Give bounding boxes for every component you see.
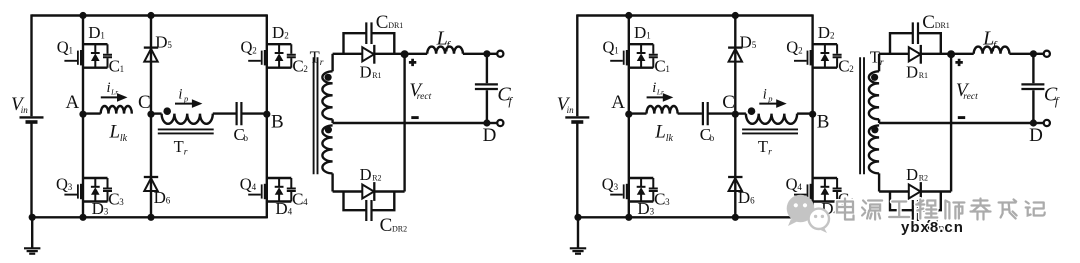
svg-text:D: D: [738, 188, 750, 207]
current arrow ip (right): [759, 99, 786, 108]
transformer core secondary side (right): [860, 57, 864, 174]
wire snubber-box bottom of Q1: [629, 66, 654, 68]
wire winding1 to DR1 (left): [333, 53, 363, 55]
wire snubber-box top of Q1: [629, 43, 654, 45]
svg-text:D: D: [155, 32, 167, 51]
svg-text:p: p: [767, 93, 772, 103]
junction Lf / Cf (left): [483, 50, 490, 57]
secondary winding2 polarity dot (left): [325, 126, 332, 133]
svg-text:2: 2: [830, 31, 835, 41]
diode D4 (body diode of Q4): [275, 178, 284, 202]
diode D2 (body diode of Q2): [821, 44, 830, 67]
svg-text:C: C: [654, 189, 665, 208]
capacitor C1 (snubber of Q1): [103, 44, 112, 67]
label CDR2 (left): [380, 215, 408, 236]
wire top rail (left): [32, 14, 267, 16]
label iLr (left): [107, 80, 119, 97]
svg-text:Q: Q: [786, 175, 798, 194]
wire leg Q2/Q4 (right): [811, 14, 813, 218]
label D1: [88, 23, 105, 42]
label Q3: [56, 175, 73, 194]
watermark character 师: [945, 201, 964, 219]
wire snubber-box bottom of Q4: [813, 200, 838, 202]
output - terminal node D (right): [1044, 120, 1050, 126]
label D1: [634, 23, 651, 42]
svg-text:C: C: [138, 92, 151, 113]
current arrow iLr (left): [101, 93, 128, 102]
svg-text:i: i: [652, 80, 656, 96]
wire + node vertical (left): [403, 54, 405, 192]
wire secondary winding1 top lead (right): [878, 54, 880, 72]
secondary winding 1 (left): [322, 71, 332, 119]
wire left rail upper (left): [30, 14, 32, 116]
secondary winding 2 (right): [869, 125, 879, 173]
transformer primary winding (right): [746, 114, 797, 124]
svg-text:R2: R2: [372, 173, 381, 182]
wire CDR1 branch left (left): [344, 33, 366, 54]
transistor Q1 (left): [64, 50, 83, 65]
label Tr primary (right): [758, 137, 772, 158]
transistor Q4 (right): [794, 184, 813, 199]
current arrow ip (left): [175, 99, 202, 108]
wire to + terminal (left): [487, 53, 497, 55]
wire winding2 to DR2 (left): [333, 190, 363, 192]
label C3: [654, 189, 670, 208]
label Vrect (right): [956, 80, 978, 102]
node B (left): [263, 111, 270, 118]
watermark character 工: [889, 202, 909, 218]
label Q4: [786, 175, 803, 194]
svg-text:R1: R1: [372, 71, 381, 80]
node B (right): [809, 111, 816, 118]
secondary winding 2 (left): [322, 125, 332, 173]
label Tr secondary (right): [870, 47, 884, 68]
svg-text:D: D: [483, 125, 497, 146]
node A (right): [625, 111, 632, 118]
svg-text:1: 1: [614, 45, 619, 55]
transistor Q4 (left): [248, 184, 267, 199]
svg-text:B: B: [271, 111, 284, 132]
watermark character 电: [837, 199, 854, 220]
inductor Lf (right): [974, 47, 1010, 54]
label iLr (right): [652, 80, 664, 97]
junction bottom rail / ground (left): [29, 214, 36, 221]
transistor Q3 (right): [610, 184, 629, 199]
wire snubber-box bottom of Q3: [629, 200, 654, 202]
current arrow iLr (right): [647, 93, 674, 102]
watermark character 程: [916, 200, 937, 219]
wire Cf top lead (left): [486, 54, 488, 83]
svg-text:R2: R2: [919, 173, 928, 182]
capacitor Cf (left): [475, 84, 498, 89]
diode D2 (body diode of Q2): [275, 44, 284, 67]
junction bottom rail / Q3 leg (right): [625, 214, 632, 221]
label D4: [821, 199, 838, 218]
wire node C to primary (right): [735, 112, 746, 114]
label C1: [109, 56, 125, 75]
svg-text:DR1: DR1: [935, 21, 950, 30]
svg-text:C: C: [922, 12, 935, 33]
label C3: [108, 189, 124, 208]
watermark character 成: [999, 200, 1017, 219]
svg-text:C: C: [654, 56, 665, 75]
output + terminal (left): [497, 51, 503, 57]
label C4: [292, 189, 308, 208]
plus sign (left): [409, 59, 416, 66]
svg-text:D: D: [275, 199, 287, 218]
svg-text:Q: Q: [240, 175, 252, 194]
inductor Lf (left): [427, 47, 463, 54]
wire + node to Lf (right): [951, 53, 974, 55]
label Lf (left): [436, 28, 452, 52]
wire bottom rail (left): [32, 216, 267, 218]
label Q2: [786, 38, 802, 57]
node C (right): [732, 111, 739, 118]
svg-text:D: D: [360, 63, 372, 82]
svg-text:D: D: [637, 199, 649, 218]
secondary winding2 polarity dot (right): [871, 126, 878, 133]
wire CDR1 branch right (right): [919, 33, 941, 54]
svg-text:Lr: Lr: [656, 88, 664, 97]
right converter circuit: [557, 12, 1060, 254]
wire secondary winding2 bottom lead (right): [878, 173, 880, 191]
capacitor C2 (snubber of Q2): [833, 44, 842, 67]
svg-text:Q: Q: [603, 38, 615, 57]
watermark logo chat bubbles: [787, 195, 829, 233]
diode DR1 (left): [362, 45, 374, 64]
diode D1 (body diode of Q1): [91, 44, 100, 67]
svg-text:D: D: [360, 165, 372, 184]
wire Cb to node C (right): [708, 112, 735, 114]
wire CDR2 branch right (right): [919, 192, 941, 211]
junction + node (left): [401, 50, 409, 58]
capacitor C4 (snubber of Q4): [833, 178, 842, 202]
svg-text:C: C: [108, 189, 119, 208]
label C1: [654, 56, 670, 75]
minus sign (right): [958, 116, 965, 119]
wire leg Q1/Q3 (left): [82, 16, 84, 218]
wire snubber-box bottom of Q2: [813, 66, 838, 68]
svg-text:2: 2: [303, 64, 308, 74]
label Vin (left): [11, 94, 28, 115]
transformer core secondary side (left): [314, 57, 318, 174]
wire snubber-box bottom of Q1: [83, 66, 108, 68]
wire leg D5/D6 (right): [734, 16, 736, 218]
diode D1 (body diode of Q1): [637, 44, 646, 67]
wire bottom rail (right): [577, 216, 812, 218]
label Llk (right): [654, 122, 673, 144]
ground (left): [24, 248, 40, 253]
label Vrect (left): [409, 80, 431, 102]
svg-text:D: D: [88, 23, 100, 42]
svg-text:4: 4: [252, 182, 257, 192]
svg-text:1: 1: [69, 45, 74, 55]
diode D3 (body diode of Q3): [637, 178, 646, 202]
svg-text:r: r: [320, 58, 324, 68]
svg-text:1: 1: [646, 31, 651, 41]
svg-text:5: 5: [752, 40, 757, 50]
svg-text:rect: rect: [963, 92, 978, 102]
wire leg Q2/Q4 (left): [266, 14, 268, 218]
svg-text:A: A: [66, 92, 80, 113]
wire left rail lower (right): [576, 123, 578, 218]
node C (left): [147, 111, 154, 118]
label D2: [272, 23, 289, 42]
wire to - terminal (left): [487, 122, 497, 124]
diode D5 (right): [728, 48, 742, 62]
wire ground stem (left): [31, 217, 33, 248]
svg-text:2: 2: [849, 64, 854, 74]
capacitor Cb (right): [703, 102, 708, 125]
junction top rail / Q1 leg (right): [625, 12, 632, 19]
wire center tap / minus rail (left): [333, 122, 487, 124]
wire CDR2 branch right (left): [372, 192, 394, 211]
label Cf (left): [497, 84, 513, 109]
wire Cf bottom lead (left): [486, 90, 488, 123]
svg-text:C: C: [292, 189, 303, 208]
svg-text:DR1: DR1: [388, 21, 403, 30]
svg-text:p: p: [183, 93, 188, 103]
capacitor CDR1 (right): [913, 22, 918, 44]
left converter circuit: [11, 12, 513, 254]
label C4: [838, 189, 854, 208]
label D3: [637, 199, 654, 218]
svg-text:2: 2: [798, 45, 803, 55]
label Q1: [57, 38, 73, 57]
label Cf (right): [1044, 84, 1060, 109]
wire snubber-box top of Q4: [267, 177, 292, 179]
minus sign (left): [411, 116, 418, 119]
capacitor CDR1 (left): [366, 22, 371, 44]
wire snubber-box top of Q2: [267, 43, 292, 45]
svg-text:DR2: DR2: [392, 224, 407, 233]
svg-text:L: L: [654, 122, 666, 143]
label Tr secondary (left): [310, 47, 324, 68]
svg-text:3: 3: [68, 182, 73, 192]
svg-text:ybx8.cn: ybx8.cn: [901, 219, 964, 236]
label DR2 (left): [360, 165, 382, 184]
label DR1 (left): [360, 63, 382, 82]
transistor Q2 (right): [794, 50, 813, 65]
svg-text:lk: lk: [120, 133, 128, 144]
svg-text:r: r: [880, 58, 884, 68]
svg-text:2: 2: [252, 45, 256, 55]
label Q2: [241, 38, 257, 57]
wire DR1 to + node (right): [921, 53, 951, 55]
label D5: [155, 32, 172, 51]
svg-text:5: 5: [167, 40, 172, 50]
wire DR1 to + node (left): [374, 53, 404, 55]
battery Vin source (left): [20, 117, 44, 122]
diode D4 (body diode of Q4): [821, 178, 830, 202]
wire CDR1 branch left (right): [890, 33, 912, 54]
svg-text:C: C: [380, 215, 393, 236]
label CDR2 (right): [926, 215, 954, 236]
label Llk (left): [109, 122, 128, 144]
junction top rail / Q1 leg (left): [79, 12, 86, 19]
svg-text:1: 1: [120, 64, 125, 74]
label Cb (left): [234, 125, 249, 144]
wire DR2 to + line (left): [374, 190, 404, 192]
label D4: [275, 199, 292, 218]
capacitor Cf (right): [1021, 84, 1044, 89]
label Q1: [603, 38, 619, 57]
svg-text:D: D: [740, 32, 752, 51]
transistor Q1 (right): [610, 50, 629, 65]
junction minus rail / Cf (left): [483, 119, 490, 126]
junction top rail / D5 leg (right): [732, 12, 739, 19]
junction minus rail / Cf (right): [1030, 119, 1037, 126]
svg-text:C: C: [722, 92, 735, 113]
wire winding1 to DR1 (right): [879, 53, 909, 55]
wire node A to Llk (right): [629, 112, 647, 114]
svg-text:in: in: [21, 105, 29, 115]
svg-text:Lr: Lr: [110, 88, 118, 97]
label DR1 (right): [906, 63, 928, 82]
svg-text:6: 6: [166, 195, 171, 205]
wire secondary winding1 top lead (left): [331, 54, 333, 72]
svg-text:D: D: [92, 199, 104, 218]
svg-text:Q: Q: [602, 175, 614, 194]
junction Lf / Cf (right): [1030, 50, 1037, 57]
wire primary to node B (right): [797, 112, 813, 114]
transformer primary winding (left): [162, 114, 213, 124]
wire Cb to node B (left): [242, 112, 267, 114]
svg-text:D: D: [906, 63, 918, 82]
wire winding1 to center tap (right): [878, 119, 880, 123]
wire CDR2 branch left (right): [890, 192, 912, 211]
capacitor C4 (snubber of Q4): [287, 178, 296, 202]
wire snubber-box top of Q1: [83, 43, 108, 45]
wire node A to Llk (left): [83, 112, 101, 114]
label D3: [92, 199, 109, 218]
svg-text:L: L: [109, 122, 121, 143]
wire to + terminal (right): [1033, 53, 1043, 55]
wire snubber-box bottom of Q4: [267, 200, 292, 202]
transformer core primary side (right): [742, 129, 798, 133]
capacitor C3 (snubber of Q3): [649, 178, 658, 202]
svg-text:r: r: [768, 148, 772, 158]
svg-text:C: C: [376, 12, 389, 33]
wire snubber-box bottom of Q2: [267, 66, 292, 68]
label C2: [838, 56, 854, 75]
watermark character 记: [1026, 202, 1045, 216]
wire Llk to Cb (right): [678, 112, 702, 114]
label CDR1 (left): [376, 12, 404, 33]
label ip (left): [178, 86, 188, 103]
junction bottom rail / D6 leg (right): [732, 214, 739, 221]
svg-text:C: C: [838, 56, 849, 75]
wire secondary winding2 bottom lead (left): [331, 173, 333, 191]
node A (left): [79, 111, 86, 118]
svg-text:T: T: [758, 137, 768, 156]
watermark character 养: [971, 199, 991, 220]
label Q4: [240, 175, 257, 194]
diode D5 (left): [144, 48, 158, 62]
plus sign (right): [955, 59, 962, 66]
svg-text:3: 3: [614, 182, 619, 192]
secondary winding 1 (right): [869, 71, 879, 119]
wire winding1 to center tap (left): [331, 119, 333, 123]
svg-text:6: 6: [750, 195, 755, 205]
wire CDR1 branch right (left): [372, 33, 394, 54]
wire Lf to output + (left): [463, 53, 487, 55]
capacitor C2 (snubber of Q2): [287, 44, 296, 67]
wire CDR2 branch left (left): [344, 192, 366, 211]
svg-text:D: D: [154, 188, 166, 207]
diode D6 (left): [144, 177, 158, 191]
wire ground stem (right): [577, 217, 579, 248]
capacitor C3 (snubber of Q3): [103, 178, 112, 202]
wire DR2 to + line (right): [921, 190, 951, 192]
diode D6 (right): [728, 177, 742, 191]
wire Cf top lead (right): [1032, 54, 1034, 83]
wire snubber-box top of Q4: [813, 177, 838, 179]
svg-text:Q: Q: [786, 38, 798, 57]
svg-text:Q: Q: [241, 38, 253, 57]
primary polarity dot (left): [163, 107, 171, 115]
svg-text:1: 1: [100, 31, 105, 41]
junction + node (right): [947, 50, 955, 58]
svg-text:in: in: [567, 105, 575, 115]
diode DR2 (left): [362, 182, 374, 201]
svg-text:rect: rect: [417, 92, 432, 102]
label C2: [292, 56, 308, 75]
capacitor CDR2 (right): [913, 200, 918, 221]
wire snubber-box top of Q3: [83, 177, 108, 179]
watermark character 源: [862, 201, 882, 220]
label Lf (right): [982, 28, 998, 52]
svg-text:2: 2: [284, 31, 289, 41]
label D5: [740, 32, 757, 51]
svg-text:lk: lk: [666, 133, 674, 144]
diode DR2 (right): [909, 182, 921, 201]
battery Vin source (right): [565, 117, 589, 122]
label DR2 (right): [906, 165, 928, 184]
inductor Llk (right): [647, 106, 678, 114]
wire + node to Lf (left): [405, 53, 428, 55]
label Cb (right): [700, 125, 715, 144]
wire Lf to output + (right): [1009, 53, 1033, 55]
label ip (right): [763, 86, 773, 103]
svg-text:i: i: [107, 80, 111, 96]
svg-text:T: T: [174, 137, 184, 156]
junction top rail / D5 leg (left): [147, 12, 154, 19]
svg-text:D: D: [634, 23, 646, 42]
wire + node vertical (right): [950, 54, 952, 192]
capacitor Cb (left): [237, 102, 242, 125]
svg-text:A: A: [611, 92, 625, 113]
svg-text:3: 3: [119, 197, 124, 207]
svg-text:b: b: [710, 133, 715, 143]
transformer core primary side (left): [158, 129, 214, 133]
wire Cf bottom lead (right): [1032, 90, 1034, 123]
svg-text:1: 1: [665, 64, 670, 74]
diode D3 (body diode of Q3): [91, 178, 100, 202]
svg-text:C: C: [109, 56, 120, 75]
junction bottom rail / D6 leg (left): [147, 214, 154, 221]
svg-text:D: D: [906, 165, 918, 184]
capacitor CDR2 (left): [366, 200, 371, 221]
label Tr primary (left): [174, 137, 188, 158]
wire winding2 to DR2 (right): [879, 190, 909, 192]
svg-text:4: 4: [303, 197, 308, 207]
diode DR1 (right): [909, 45, 921, 64]
label D6: [154, 188, 171, 207]
wire snubber-box bottom of Q3: [83, 200, 108, 202]
svg-text:i: i: [763, 86, 767, 102]
capacitor C1 (snubber of Q1): [649, 44, 658, 67]
